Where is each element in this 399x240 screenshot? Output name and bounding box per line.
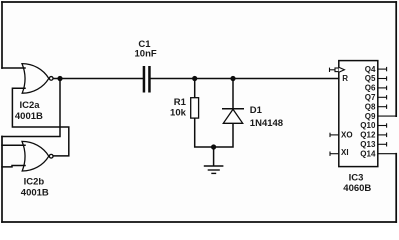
pin Q12	[378, 134, 387, 136]
pin Q9 wire to right rail	[378, 115, 396, 117]
wire C1 to IC3 R input	[151, 78, 339, 80]
svg-text:Q14: Q14	[360, 149, 376, 158]
svg-text:XO: XO	[341, 131, 353, 140]
svg-text:Q4: Q4	[365, 65, 376, 74]
wire top border rail	[2, 1, 396, 3]
svg-text:IC2b: IC2b	[24, 177, 45, 188]
wire IC2a output to C1	[53, 78, 143, 80]
svg-text:4060B: 4060B	[343, 183, 371, 194]
svg-text:10nF: 10nF	[135, 49, 157, 60]
node C junction D1 top	[230, 76, 235, 81]
wire D1 bottom lead to ground node	[214, 123, 233, 147]
pin Q4	[378, 68, 387, 70]
svg-text:Q12: Q12	[360, 131, 376, 140]
svg-text:Q9: Q9	[365, 112, 376, 121]
svg-text:IC2a: IC2a	[19, 100, 40, 111]
wire IC2a input b to IC2b output loop	[12, 88, 68, 156]
pins Q4..Q14 stubs	[378, 67, 396, 222]
capacitor C1	[143, 66, 151, 93]
svg-text:4001B: 4001B	[15, 111, 43, 122]
pin Q7	[378, 96, 387, 98]
pin Q5	[378, 78, 387, 80]
node D junction ground	[211, 144, 216, 149]
wire ground stub	[213, 147, 215, 165]
svg-text:1N4148: 1N4148	[250, 118, 283, 129]
svg-text:Q6: Q6	[365, 84, 376, 93]
gate IC2a (NOR 4001B)	[22, 64, 53, 94]
pin Q8	[378, 106, 387, 108]
svg-text:10k: 10k	[170, 108, 187, 119]
node B junction R1 top	[192, 76, 197, 81]
pin XI stub	[330, 152, 339, 156]
pin XO stub	[330, 133, 339, 137]
svg-text:Q8: Q8	[365, 102, 376, 111]
svg-text:Q10: Q10	[360, 121, 376, 130]
wire R1 bottom lead to ground node	[195, 118, 214, 147]
wire IC2a input a from left rail	[2, 67, 25, 69]
wire IC2b input b tap	[2, 166, 25, 167]
svg-text:Q5: Q5	[365, 74, 376, 83]
wire left rail lower segment	[1, 137, 3, 223]
svg-text:4001B: 4001B	[21, 188, 49, 199]
wire right border rail upper segment	[395, 2, 397, 116]
pin wedge clock input indicator	[330, 67, 345, 72]
wire left rail upper segment	[1, 2, 3, 68]
wire D1 top lead	[232, 79, 234, 109]
pin labels Q4..Q14	[360, 65, 376, 159]
pin Q13	[378, 143, 387, 145]
wire R1 top lead	[194, 79, 196, 98]
svg-text:R: R	[342, 74, 348, 83]
pin Q10	[378, 125, 387, 127]
pin Q6	[378, 87, 387, 89]
wire IC2a output down to left rail	[2, 79, 60, 137]
gate IC2b (NOR 4001B)	[22, 141, 53, 171]
svg-text:XI: XI	[341, 148, 349, 157]
pin Q14 wire to bottom rail	[378, 154, 396, 222]
IC U3 box (4060B)	[339, 61, 378, 167]
diode D1	[222, 109, 244, 124]
resistor R1	[191, 98, 199, 118]
wire right rail lower segment	[395, 154, 397, 222]
svg-text:R1: R1	[174, 97, 187, 108]
svg-text:Q7: Q7	[365, 93, 376, 102]
ground	[204, 166, 224, 173]
wire bottom border rail	[2, 221, 396, 223]
svg-text:Q13: Q13	[360, 140, 376, 149]
wire IC2b input a tap	[2, 144, 25, 146]
node A junction IC2a output	[57, 76, 62, 81]
svg-text:D1: D1	[250, 105, 263, 116]
